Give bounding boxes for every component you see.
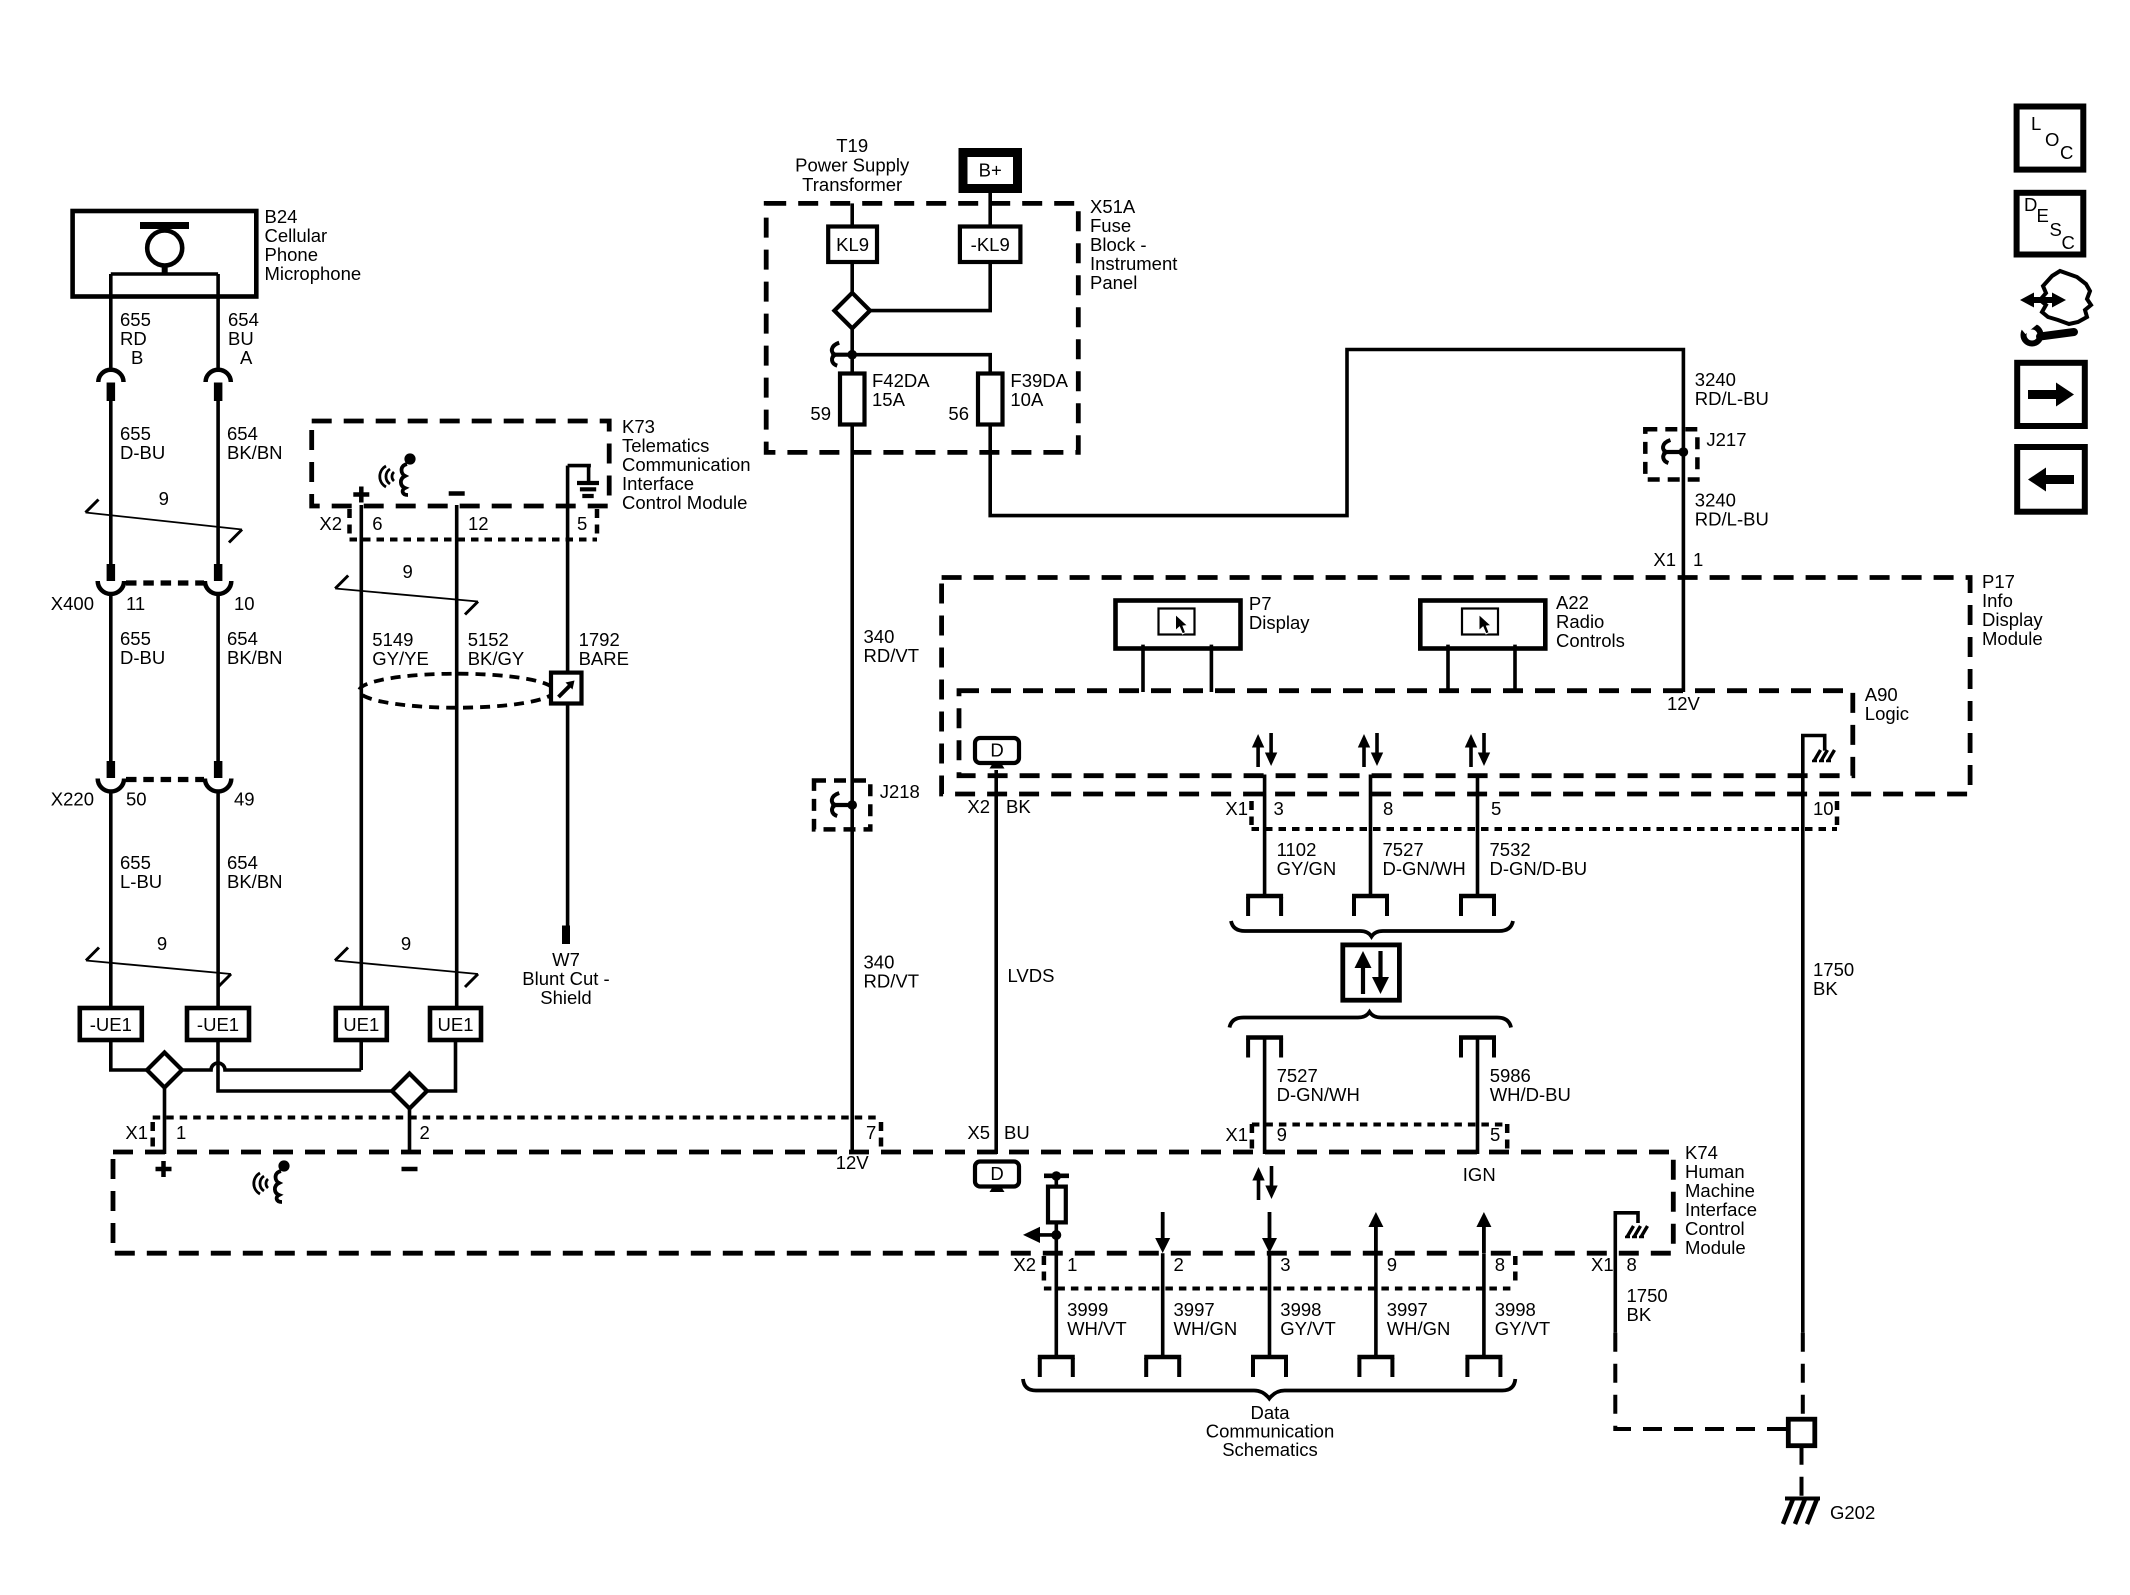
svg-text:Interface: Interface bbox=[1685, 1199, 1757, 1220]
svg-text:Shield: Shield bbox=[540, 987, 591, 1008]
svg-text:X1: X1 bbox=[1591, 1254, 1614, 1275]
svg-text:BK: BK bbox=[1813, 978, 1838, 999]
svg-text:12V: 12V bbox=[1667, 693, 1701, 714]
svg-text:10A: 10A bbox=[1010, 389, 1044, 410]
svg-text:9: 9 bbox=[401, 933, 411, 954]
svg-text:WH/VT: WH/VT bbox=[1067, 1318, 1127, 1339]
svg-text:-KL9: -KL9 bbox=[971, 234, 1010, 255]
svg-text:D: D bbox=[2024, 194, 2037, 215]
svg-text:B24: B24 bbox=[265, 206, 298, 227]
svg-text:655: 655 bbox=[120, 852, 151, 873]
svg-text:3: 3 bbox=[1274, 798, 1284, 819]
svg-text:P7: P7 bbox=[1249, 593, 1272, 614]
svg-text:6: 6 bbox=[372, 513, 382, 534]
svg-text:Human: Human bbox=[1685, 1161, 1745, 1182]
svg-text:1750: 1750 bbox=[1813, 959, 1854, 980]
svg-text:3997: 3997 bbox=[1174, 1299, 1215, 1320]
svg-text:Control: Control bbox=[1685, 1218, 1745, 1239]
svg-text:3998: 3998 bbox=[1280, 1299, 1321, 1320]
svg-text:12: 12 bbox=[468, 513, 489, 534]
svg-text:BK/BN: BK/BN bbox=[227, 647, 283, 668]
svg-text:340: 340 bbox=[864, 952, 895, 973]
svg-text:KL9: KL9 bbox=[836, 234, 869, 255]
svg-text:11: 11 bbox=[126, 593, 145, 614]
svg-text:5: 5 bbox=[1490, 1124, 1500, 1145]
svg-text:3240: 3240 bbox=[1695, 369, 1736, 390]
svg-text:WH/D-BU: WH/D-BU bbox=[1490, 1084, 1571, 1105]
svg-text:D-GN/WH: D-GN/WH bbox=[1383, 858, 1466, 879]
svg-text:X2: X2 bbox=[319, 513, 342, 534]
svg-text:654: 654 bbox=[227, 423, 258, 444]
svg-text:Microphone: Microphone bbox=[265, 263, 362, 284]
svg-text:X1: X1 bbox=[125, 1122, 148, 1143]
svg-text:Fuse: Fuse bbox=[1090, 215, 1131, 236]
svg-text:UE1: UE1 bbox=[343, 1014, 379, 1035]
svg-text:Transformer: Transformer bbox=[802, 174, 902, 195]
svg-text:1: 1 bbox=[1067, 1254, 1077, 1275]
svg-text:IGN: IGN bbox=[1463, 1164, 1496, 1185]
svg-text:Module: Module bbox=[1685, 1237, 1746, 1258]
svg-text:2: 2 bbox=[1174, 1254, 1184, 1275]
svg-text:C: C bbox=[2062, 232, 2075, 253]
svg-text:15A: 15A bbox=[872, 389, 906, 410]
svg-text:1102: 1102 bbox=[1277, 839, 1317, 860]
svg-text:Phone: Phone bbox=[265, 244, 319, 265]
svg-text:GY/YE: GY/YE bbox=[372, 648, 429, 669]
svg-text:J218: J218 bbox=[880, 781, 920, 802]
svg-text:7: 7 bbox=[866, 1122, 876, 1143]
svg-text:10: 10 bbox=[234, 593, 255, 614]
svg-text:340: 340 bbox=[864, 626, 895, 647]
svg-text:8: 8 bbox=[1495, 1254, 1505, 1275]
svg-text:A90: A90 bbox=[1865, 684, 1898, 705]
svg-text:GY/VT: GY/VT bbox=[1280, 1318, 1336, 1339]
svg-text:654: 654 bbox=[227, 852, 258, 873]
svg-text:3: 3 bbox=[1280, 1254, 1290, 1275]
svg-text:BK/BN: BK/BN bbox=[227, 871, 283, 892]
svg-text:WH/GN: WH/GN bbox=[1174, 1318, 1238, 1339]
svg-text:X400: X400 bbox=[51, 593, 94, 614]
svg-text:12V: 12V bbox=[836, 1152, 870, 1173]
svg-text:P17: P17 bbox=[1982, 571, 2015, 592]
svg-text:F42DA: F42DA bbox=[872, 370, 930, 391]
svg-text:49: 49 bbox=[234, 789, 255, 810]
svg-text:9: 9 bbox=[157, 933, 167, 954]
svg-text:Block -: Block - bbox=[1090, 234, 1147, 255]
svg-text:654: 654 bbox=[227, 628, 258, 649]
svg-text:K73: K73 bbox=[622, 416, 655, 437]
svg-text:BARE: BARE bbox=[579, 648, 629, 669]
svg-text:56: 56 bbox=[948, 403, 969, 424]
svg-text:Power Supply: Power Supply bbox=[795, 155, 910, 176]
svg-text:654: 654 bbox=[228, 309, 259, 330]
svg-text:WH/GN: WH/GN bbox=[1387, 1318, 1451, 1339]
svg-text:UE1: UE1 bbox=[438, 1014, 474, 1035]
svg-text:X1: X1 bbox=[1653, 549, 1676, 570]
svg-text:50: 50 bbox=[126, 789, 147, 810]
svg-text:X5: X5 bbox=[967, 1122, 990, 1143]
svg-text:L-BU: L-BU bbox=[120, 871, 162, 892]
svg-text:3999: 3999 bbox=[1067, 1299, 1108, 1320]
svg-text:5: 5 bbox=[1491, 798, 1501, 819]
svg-text:LVDS: LVDS bbox=[1008, 965, 1055, 986]
svg-text:Cellular: Cellular bbox=[265, 225, 328, 246]
svg-text:Logic: Logic bbox=[1865, 703, 1909, 724]
svg-text:BU: BU bbox=[228, 328, 254, 349]
svg-text:RD/VT: RD/VT bbox=[864, 645, 920, 666]
svg-text:9: 9 bbox=[1387, 1254, 1397, 1275]
svg-text:Panel: Panel bbox=[1090, 272, 1137, 293]
svg-text:F39DA: F39DA bbox=[1010, 370, 1068, 391]
svg-text:C: C bbox=[2060, 142, 2073, 163]
svg-text:5149: 5149 bbox=[372, 629, 413, 650]
svg-text:9: 9 bbox=[403, 561, 413, 582]
svg-text:655: 655 bbox=[120, 423, 151, 444]
svg-text:Controls: Controls bbox=[1556, 630, 1625, 651]
svg-text:A: A bbox=[240, 347, 253, 368]
svg-text:-UE1: -UE1 bbox=[197, 1014, 239, 1035]
svg-text:J217: J217 bbox=[1706, 429, 1746, 450]
svg-text:2: 2 bbox=[420, 1122, 430, 1143]
svg-text:Communication: Communication bbox=[622, 454, 751, 475]
svg-text:9: 9 bbox=[1277, 1124, 1287, 1145]
svg-text:Telematics: Telematics bbox=[622, 435, 709, 456]
svg-text:K74: K74 bbox=[1685, 1142, 1718, 1163]
svg-text:3997: 3997 bbox=[1387, 1299, 1428, 1320]
svg-text:S: S bbox=[2050, 219, 2062, 240]
svg-text:BK/GY: BK/GY bbox=[468, 648, 525, 669]
svg-text:8: 8 bbox=[1383, 798, 1393, 819]
svg-text:3240: 3240 bbox=[1695, 490, 1736, 511]
svg-text:D-GN/WH: D-GN/WH bbox=[1277, 1084, 1360, 1105]
svg-text:655: 655 bbox=[120, 309, 151, 330]
svg-text:Control Module: Control Module bbox=[622, 492, 747, 513]
svg-text:B+: B+ bbox=[979, 160, 1002, 181]
svg-text:X51A: X51A bbox=[1090, 196, 1136, 217]
svg-text:7532: 7532 bbox=[1490, 839, 1531, 860]
svg-text:-UE1: -UE1 bbox=[90, 1014, 132, 1035]
svg-text:RD/VT: RD/VT bbox=[864, 971, 920, 992]
svg-text:Schematics: Schematics bbox=[1222, 1439, 1318, 1460]
svg-text:RD/L-BU: RD/L-BU bbox=[1695, 388, 1769, 409]
svg-text:5152: 5152 bbox=[468, 629, 509, 650]
svg-text:Blunt Cut -: Blunt Cut - bbox=[522, 968, 609, 989]
svg-text:BK/BN: BK/BN bbox=[227, 442, 283, 463]
svg-text:D-GN/D-BU: D-GN/D-BU bbox=[1490, 858, 1588, 879]
svg-text:1750: 1750 bbox=[1627, 1285, 1668, 1306]
svg-text:Radio: Radio bbox=[1556, 611, 1604, 632]
svg-text:BK: BK bbox=[1006, 796, 1031, 817]
svg-text:10: 10 bbox=[1813, 798, 1834, 819]
svg-text:X1: X1 bbox=[1225, 798, 1248, 819]
svg-text:Display: Display bbox=[1982, 609, 2043, 630]
svg-text:E: E bbox=[2037, 205, 2049, 226]
svg-text:7527: 7527 bbox=[1277, 1065, 1318, 1086]
svg-text:D-BU: D-BU bbox=[120, 442, 165, 463]
svg-text:Machine: Machine bbox=[1685, 1180, 1755, 1201]
svg-text:W7: W7 bbox=[552, 949, 580, 970]
svg-text:O: O bbox=[2045, 129, 2059, 150]
svg-text:A22: A22 bbox=[1556, 592, 1589, 613]
svg-text:L: L bbox=[2031, 113, 2041, 134]
svg-text:9: 9 bbox=[159, 488, 169, 509]
svg-text:Interface: Interface bbox=[622, 473, 694, 494]
svg-text:T19: T19 bbox=[836, 135, 868, 156]
svg-text:5986: 5986 bbox=[1490, 1065, 1531, 1086]
svg-text:GY/GN: GY/GN bbox=[1277, 858, 1337, 879]
svg-text:X2: X2 bbox=[967, 796, 990, 817]
svg-text:1: 1 bbox=[176, 1122, 186, 1143]
svg-text:1: 1 bbox=[1693, 549, 1703, 570]
svg-text:Instrument: Instrument bbox=[1090, 253, 1177, 274]
svg-text:RD/L-BU: RD/L-BU bbox=[1695, 509, 1769, 530]
svg-text:X2: X2 bbox=[1013, 1254, 1036, 1275]
svg-text:7527: 7527 bbox=[1383, 839, 1424, 860]
svg-text:5: 5 bbox=[577, 513, 587, 534]
svg-text:1792: 1792 bbox=[579, 629, 620, 650]
svg-text:BK: BK bbox=[1627, 1304, 1652, 1325]
svg-text:D-BU: D-BU bbox=[120, 647, 165, 668]
svg-text:Display: Display bbox=[1249, 612, 1310, 633]
svg-text:BU: BU bbox=[1004, 1122, 1030, 1143]
svg-text:3998: 3998 bbox=[1495, 1299, 1536, 1320]
svg-text:X220: X220 bbox=[51, 789, 94, 810]
svg-text:Info: Info bbox=[1982, 590, 2013, 611]
svg-text:Module: Module bbox=[1982, 628, 2043, 649]
svg-text:GY/VT: GY/VT bbox=[1495, 1318, 1551, 1339]
svg-text:8: 8 bbox=[1627, 1254, 1637, 1275]
svg-text:59: 59 bbox=[810, 403, 831, 424]
svg-text:RD: RD bbox=[120, 328, 147, 349]
svg-text:655: 655 bbox=[120, 628, 151, 649]
svg-text:X1: X1 bbox=[1225, 1124, 1248, 1145]
svg-text:G202: G202 bbox=[1830, 1502, 1875, 1523]
svg-text:B: B bbox=[131, 347, 143, 368]
